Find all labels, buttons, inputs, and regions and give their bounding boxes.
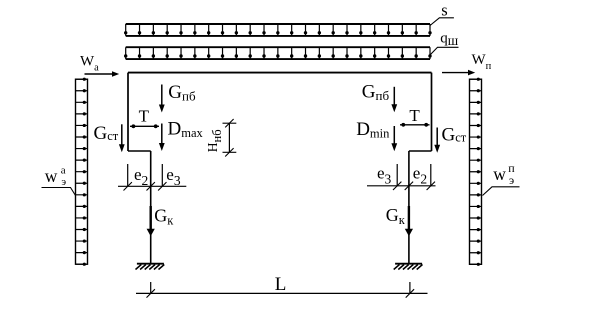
dimension H_nb <box>223 119 237 157</box>
svg-text:w: w <box>45 166 58 186</box>
label w_e^a with leader <box>42 164 76 195</box>
arrow G_st left <box>119 124 125 152</box>
frame: left lower column <box>150 151 152 264</box>
e2/e3 dimension left <box>118 164 186 191</box>
wind strip right: arrows <box>470 79 482 264</box>
arrow G_k left <box>147 206 155 236</box>
svg-text:qш: qш <box>440 31 459 48</box>
svg-text:э: э <box>509 173 514 187</box>
wind strip left: outline <box>76 79 88 264</box>
arrow W_p <box>442 70 475 76</box>
wind strip left (w_e^a) <box>76 78 88 266</box>
label S with leader <box>430 1 454 26</box>
wind strip left: arrows <box>76 79 88 264</box>
svg-text:L: L <box>275 274 287 295</box>
label w_e^p with leader <box>483 161 520 195</box>
load band q_sh: arrows <box>126 47 430 59</box>
load band S: bottom line <box>126 35 430 37</box>
wind strip right: outline <box>470 79 482 264</box>
svg-text:э: э <box>61 176 66 188</box>
arrow D_min <box>391 126 397 151</box>
label q_sh with leader <box>430 31 459 55</box>
arrow G_k right <box>405 206 413 236</box>
svg-text:w: w <box>493 164 506 184</box>
svg-text:s: s <box>441 1 447 20</box>
frame: left upper column <box>127 73 129 151</box>
wind strip right (w_e^p) <box>470 78 482 266</box>
load band S: top line <box>126 23 430 25</box>
dimension T left <box>130 124 159 128</box>
arrow D_max <box>159 124 165 152</box>
ground support right <box>394 264 423 270</box>
load band q_sh: bottom line <box>126 58 430 60</box>
frame: right lower column <box>408 151 410 264</box>
load band S (snow) <box>124 24 432 36</box>
arrow G_st right <box>434 128 440 153</box>
frame: right upper column <box>431 73 433 151</box>
arrow G_pb right <box>391 87 397 112</box>
frame: top chord <box>128 72 432 74</box>
load band q_sh (roof dead load) <box>124 47 432 59</box>
dimension T right <box>400 123 430 127</box>
arrow G_pb left <box>159 85 165 113</box>
svg-text:T: T <box>409 106 420 125</box>
svg-text:a: a <box>61 164 66 176</box>
frame: right column step <box>409 150 432 152</box>
e3/e2 dimension right <box>367 164 436 190</box>
arrow W_a <box>85 71 120 77</box>
svg-text:T: T <box>139 107 150 126</box>
dimension L <box>136 282 428 298</box>
ground support left <box>136 264 165 270</box>
load band S: arrows <box>126 24 430 36</box>
load band q_sh: top line <box>126 46 430 48</box>
frame: left column step <box>128 150 151 152</box>
